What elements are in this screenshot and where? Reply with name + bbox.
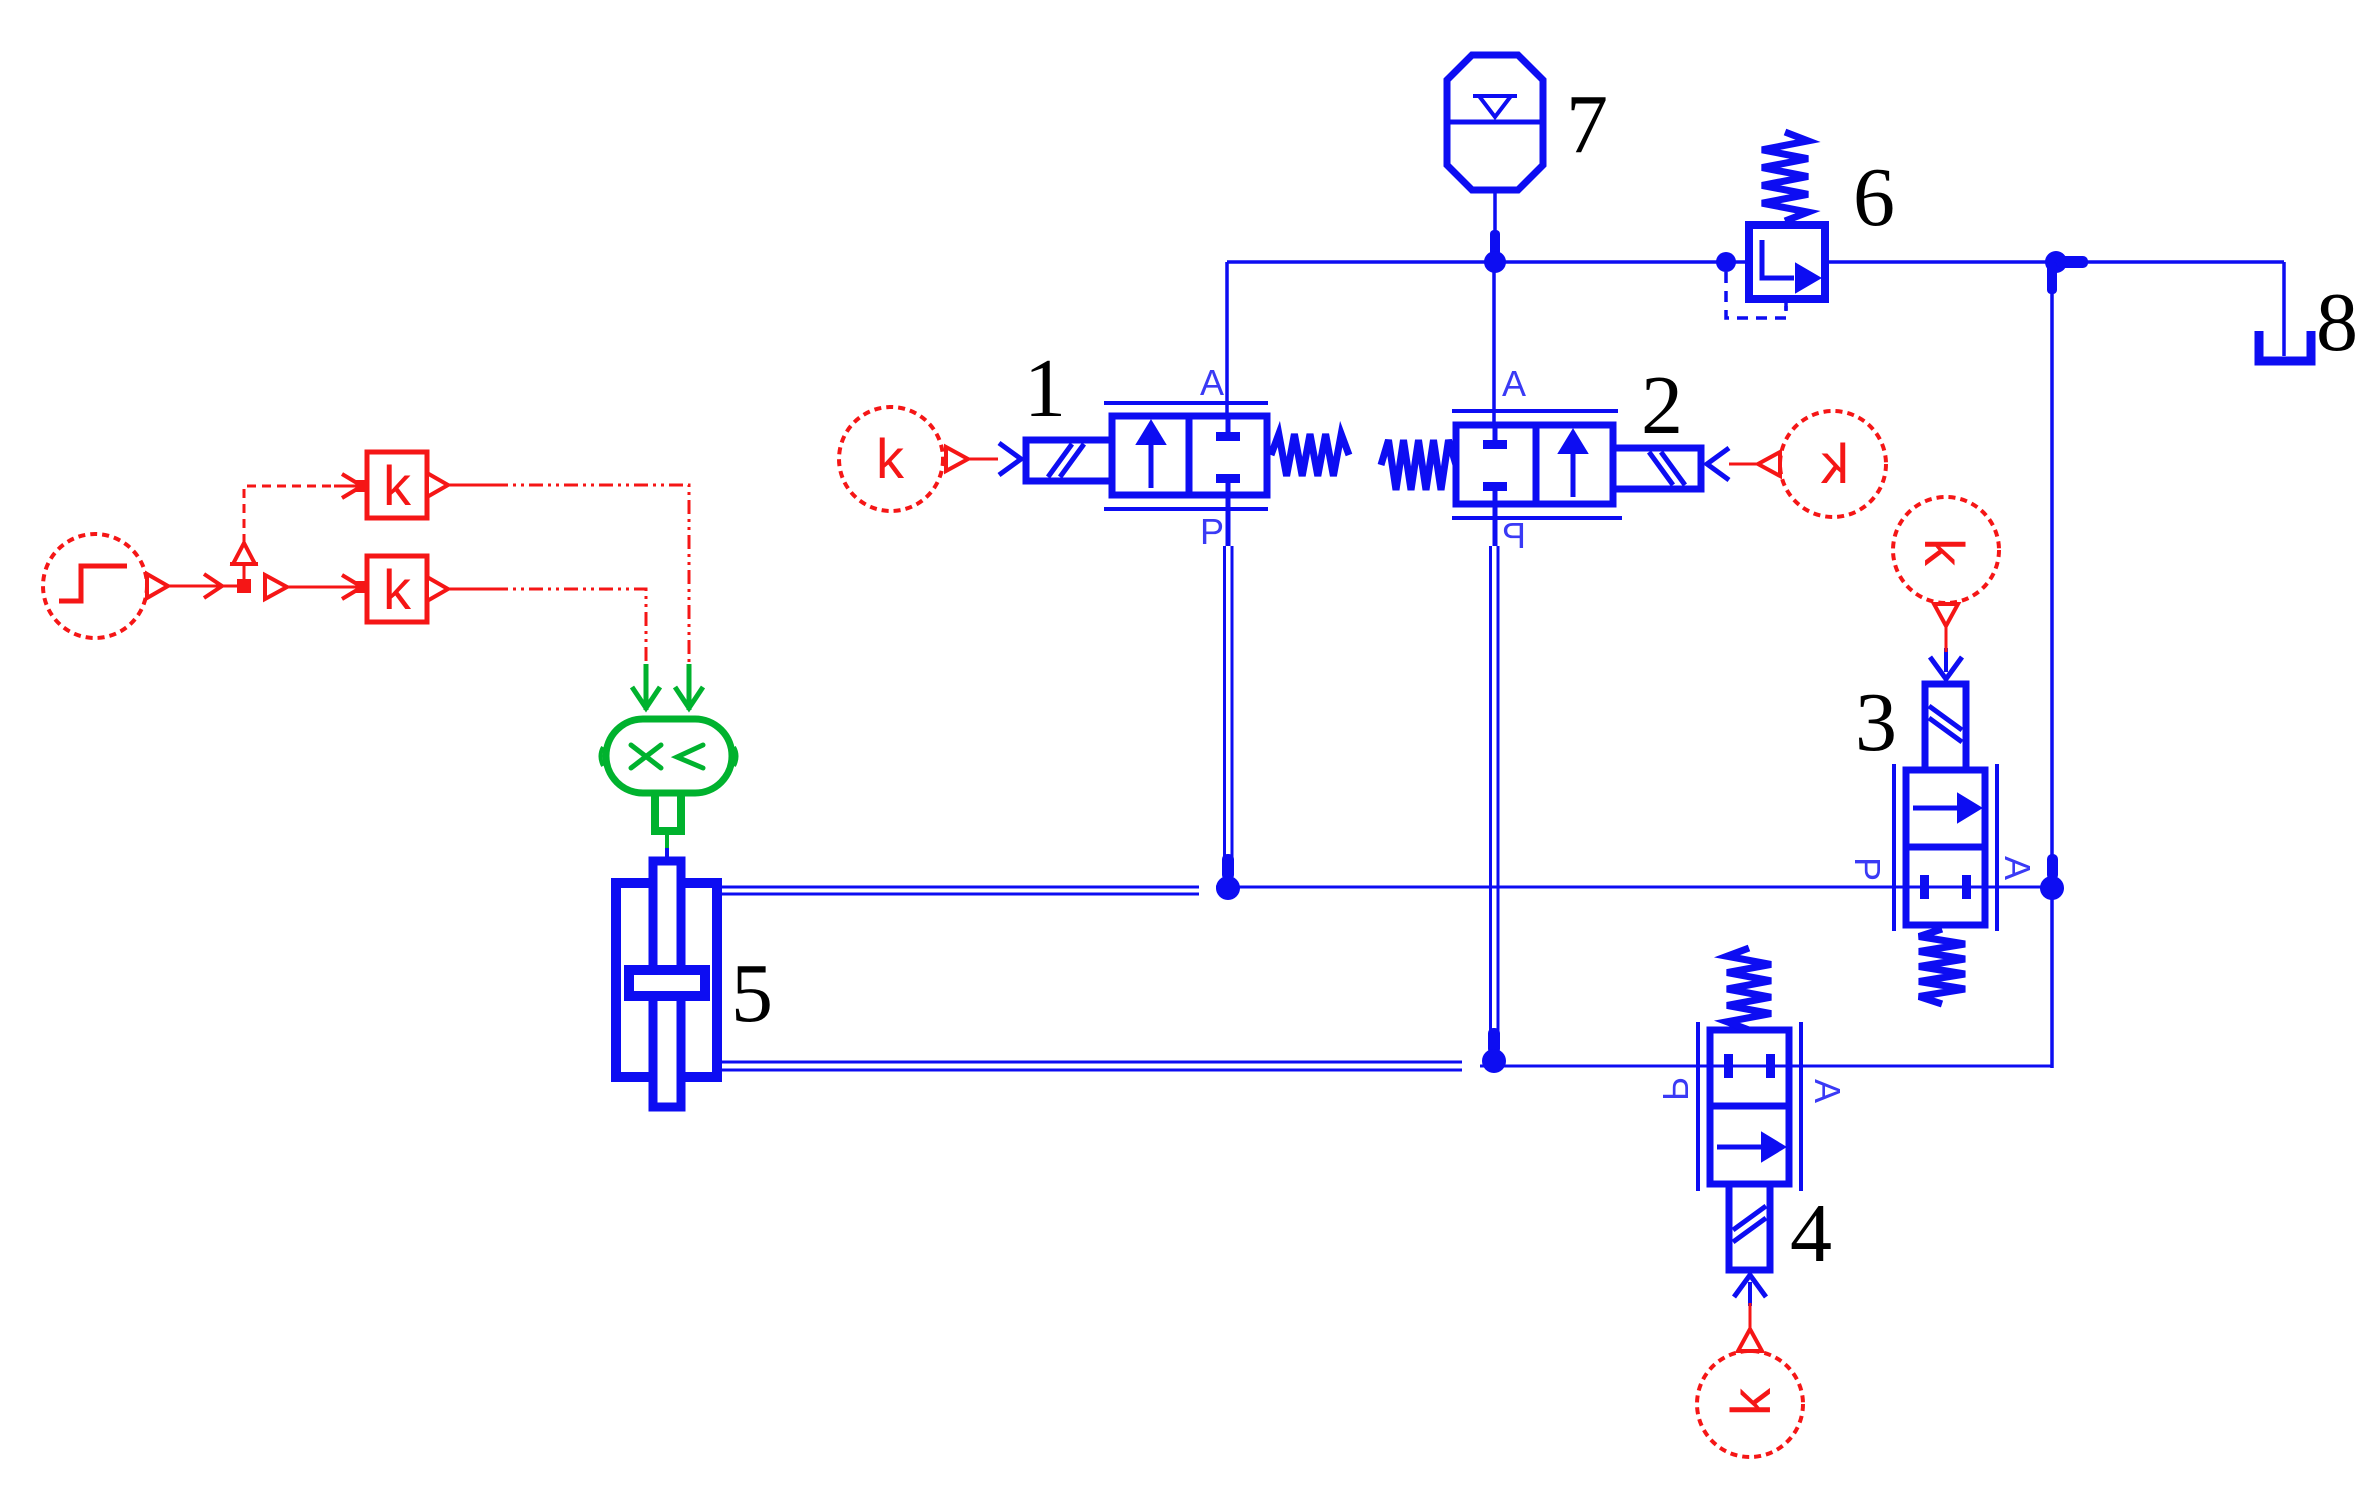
signal source k4 output port — [1738, 1329, 1762, 1351]
cylinder 5 piston — [629, 970, 705, 996]
valve 3 spring — [1919, 929, 1965, 1004]
signal source k2 output port — [1758, 452, 1780, 476]
valve 2 solenoid — [1613, 448, 1701, 489]
blue link to rod — [665, 848, 669, 860]
valve 2 body — [1456, 425, 1613, 504]
green input arrow left — [632, 664, 660, 710]
valve 2 A line — [1492, 262, 1496, 440]
tank 8 — [2259, 331, 2311, 361]
svg-text:2: 2 — [1641, 359, 1683, 452]
wire k1 to valve 1 — [968, 458, 998, 461]
branch node junction — [237, 579, 251, 593]
relief valve 6 body — [1749, 225, 1825, 299]
junction valve3 A node — [2040, 854, 2064, 900]
valve 3 right rail — [1995, 764, 1999, 931]
wire k4 to valve 4 — [1749, 1303, 1752, 1329]
svg-text:P: P — [1655, 1077, 1696, 1101]
valve 1 top rail — [1104, 401, 1268, 405]
line valve6 to tank corner — [1829, 260, 2284, 264]
valve 3 left rail — [1892, 764, 1896, 931]
valve 1 bottom rail — [1104, 507, 1268, 511]
valve 3 blocked port stubs — [1920, 875, 1971, 899]
svg-text:k: k — [876, 427, 905, 490]
gain k2 output port — [427, 577, 448, 601]
gain k1 output port — [427, 473, 448, 497]
signal source k1 circle — [839, 407, 943, 511]
signal source k3 circle — [1893, 497, 1999, 603]
valve 2 bottom rail — [1452, 516, 1622, 520]
svg-text:k: k — [383, 558, 412, 621]
accumulator 7 separator line — [1447, 120, 1543, 125]
cylinder bottom pipe (double) — [722, 1062, 1462, 1070]
valve 2 right cell arrow — [1559, 430, 1587, 497]
svg-text:6: 6 — [1853, 151, 1895, 244]
green link to rod — [665, 835, 669, 848]
lower hydraulic line to valve 4 — [1480, 1065, 2052, 1068]
accumulator 7 vessel — [1447, 55, 1543, 190]
valve 1 spring — [1271, 434, 1349, 476]
upper hydraulic line to valve 3 — [1216, 886, 2052, 889]
svg-text:4: 4 — [1790, 1187, 1832, 1280]
svg-text:7: 7 — [1566, 78, 1608, 171]
signal source k1 output port — [946, 447, 968, 471]
accumulator 7 gas triangle — [1473, 96, 1517, 117]
valve 1 body — [1112, 416, 1267, 495]
wire k3 to valve 3 — [1945, 626, 1948, 652]
green input arrow right — [675, 664, 703, 710]
svg-text:k: k — [383, 454, 412, 517]
main supply line top — [1227, 260, 1749, 264]
valve 3 solenoid input chevron — [1930, 657, 1962, 679]
wire branch to gain k2 (lower) — [287, 575, 366, 599]
relief valve 6 spring — [1762, 132, 1808, 221]
valve 4 solenoid — [1729, 1184, 1770, 1270]
valve 1 blocked port stubs — [1216, 419, 1240, 546]
comparator block (green stadium) — [606, 719, 732, 793]
valve 1 left cell arrow — [1137, 421, 1165, 488]
valve 2 P pipe (double) — [1491, 546, 1499, 1046]
cylinder top pipe (double) — [722, 887, 1199, 894]
cylinder 5 body — [616, 883, 717, 1077]
dashed wire branch to gain k1 (upper) — [244, 474, 366, 543]
up branch port triangle — [230, 543, 258, 579]
accumulator 7 stem — [1493, 190, 1497, 262]
valve 4 solenoid input chevron — [1734, 1275, 1766, 1297]
svg-text:k: k — [1719, 1387, 1782, 1416]
step source signal generator — [43, 534, 147, 638]
gain block k2 — [367, 556, 427, 622]
junction valve2 P node — [1482, 1028, 1506, 1073]
valve 3 solenoid — [1925, 684, 1966, 770]
comparator x < glyphs — [631, 745, 703, 768]
right vertical line — [2050, 262, 2054, 1068]
right branch port triangle — [265, 575, 287, 599]
valve 2 solenoid input chevron — [1707, 448, 1729, 480]
comparator side ticks — [601, 747, 737, 766]
svg-text:3: 3 — [1855, 676, 1897, 769]
gain block k1 — [367, 452, 427, 518]
step source output port — [147, 574, 168, 598]
dash-dot wire gain k2 to comparator — [448, 589, 646, 664]
valve 4 spring — [1727, 948, 1771, 1030]
valve 4 left rail — [1696, 1022, 1700, 1191]
dash-dot wire gain k1 to comparator — [448, 485, 689, 664]
valve 4 bottom cell arrow — [1717, 1133, 1785, 1161]
valve 1 A line — [1225, 262, 1229, 432]
cylinder 5 rod — [653, 861, 681, 1107]
relief valve 6 pilot line (dashed) — [1726, 272, 1786, 318]
valve 2 top rail — [1452, 409, 1618, 413]
svg-text:k: k — [1820, 432, 1849, 495]
svg-text:P: P — [1847, 857, 1888, 881]
svg-text:A: A — [1807, 1079, 1848, 1103]
relief valve 6 internal arrow — [1762, 240, 1820, 292]
valve 1 P pipe (double) — [1225, 546, 1233, 874]
comparator output port (green socket) — [655, 793, 681, 831]
junction pilot tap node — [1716, 252, 1736, 272]
valve 3 body — [1906, 770, 1985, 925]
svg-text:P: P — [1502, 515, 1526, 556]
svg-text:5: 5 — [731, 947, 773, 1040]
valve 1 solenoid — [1026, 440, 1112, 481]
junction valve1 P node — [1216, 854, 1240, 900]
junction accumulator node — [1484, 230, 1506, 273]
signal source k2 circle — [1780, 411, 1886, 517]
signal source k3 output port — [1934, 604, 1958, 626]
valve 4 blocked port stubs — [1724, 1054, 1775, 1078]
svg-text:1: 1 — [1024, 342, 1066, 435]
wire step source to branch node — [168, 574, 237, 598]
valve 3 top cell arrow — [1913, 794, 1981, 822]
tank 8 drop line — [2282, 262, 2286, 356]
junction top right node — [2045, 251, 2088, 294]
svg-text:k: k — [1913, 538, 1976, 567]
svg-text:A: A — [1200, 362, 1224, 403]
svg-text:A: A — [1502, 363, 1526, 404]
signal source k4 circle — [1697, 1351, 1803, 1457]
valve 4 body — [1710, 1030, 1789, 1184]
wire k2 to valve 2 — [1729, 463, 1758, 466]
svg-text:P: P — [1200, 511, 1224, 552]
valve 1 solenoid input chevron — [999, 443, 1021, 475]
valve 2 blocked port stubs — [1483, 428, 1507, 546]
svg-text:8: 8 — [2316, 276, 2358, 369]
valve 4 right rail — [1799, 1022, 1803, 1191]
valve 2 spring — [1381, 440, 1456, 490]
svg-text:A: A — [1997, 856, 2038, 880]
